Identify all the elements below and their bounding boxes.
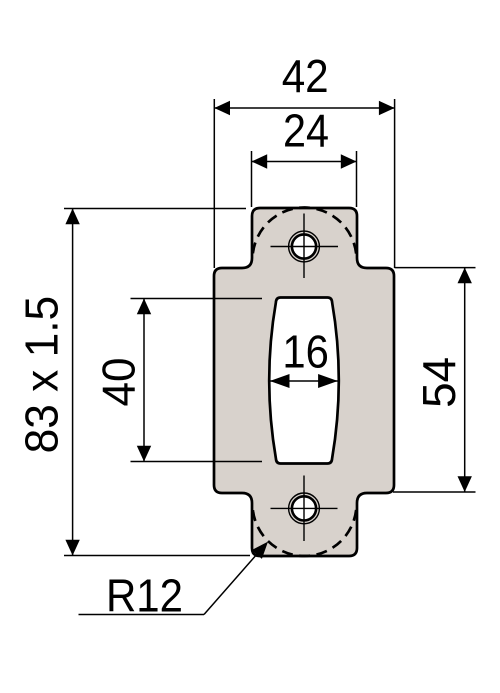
dimension 16: right arrow: [318, 374, 338, 388]
dimension 42: left arrow: [214, 101, 230, 115]
dimension 40: dimension line: [143, 299, 145, 462]
bottom R12 dashed arc: [253, 504, 357, 556]
central latch cutout: [269, 298, 339, 464]
svg-text:24: 24: [283, 105, 329, 157]
dimension 42: dimension line: [214, 107, 394, 109]
dimension 54: bottom arrow: [458, 476, 472, 492]
leader R12: underline: [79, 614, 205, 616]
dimension 24: extension lines: [251, 151, 253, 207]
dimension 83 x 1.5: top arrow: [65, 209, 79, 225]
dimension 24: dimension line: [252, 161, 357, 163]
bottom screw hole crosshair: [271, 507, 338, 509]
top R12 dashed arc: [253, 208, 357, 260]
dimension 40: extension lines: [131, 298, 263, 300]
svg-text:83 x 1.5: 83 x 1.5: [16, 296, 68, 454]
dimension 83 x 1.5: bottom arrow: [65, 540, 79, 556]
svg-text:42: 42: [282, 50, 329, 102]
dimension 42: extension lines: [213, 99, 215, 268]
leader R12: arrow: [252, 542, 268, 559]
dimension 83 x 1.5: dimension line: [72, 209, 74, 556]
leader R12: diagonal line: [204, 550, 261, 615]
dimension 54: extension lines: [395, 267, 476, 269]
dimension 24: right arrow: [341, 154, 357, 168]
dimension 42: right arrow: [379, 101, 395, 115]
dimension 40: bottom arrow: [137, 446, 151, 462]
dimension 40: top arrow: [137, 299, 151, 315]
svg-text:40: 40: [93, 358, 145, 407]
dimension 16: dimension line: [270, 380, 338, 382]
svg-text:54: 54: [413, 357, 465, 408]
top screw hole crosshair: [271, 246, 339, 248]
dimension 83 x 1.5: extension lines: [64, 208, 246, 210]
dimension 54: top arrow: [458, 268, 472, 284]
dimension 24: left arrow: [252, 154, 268, 168]
dimension 54: dimension line: [464, 268, 466, 492]
svg-text:R12: R12: [106, 570, 183, 622]
svg-text:16: 16: [282, 325, 329, 377]
bottom screw hole: [292, 496, 316, 520]
dimension 16: left arrow: [270, 374, 290, 388]
top screw hole: [292, 234, 316, 258]
strike plate body: [214, 208, 394, 556]
